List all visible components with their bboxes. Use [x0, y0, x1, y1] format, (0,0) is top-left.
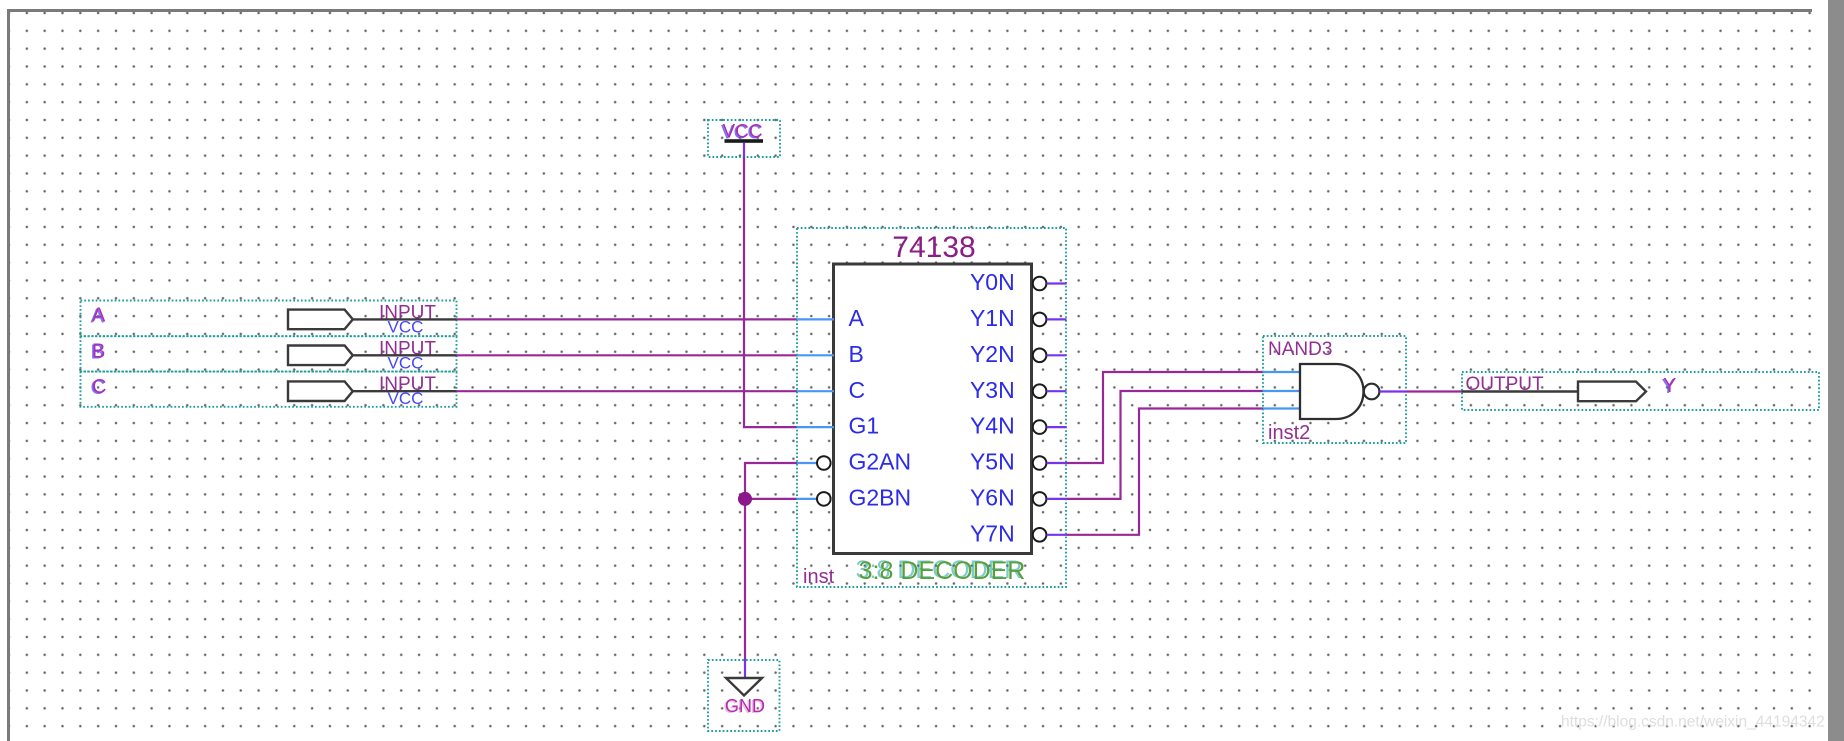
decoder component 74138 (inst) [797, 228, 1066, 588]
svg-text:A: A [92, 304, 106, 326]
svg-text:74138: 74138 [892, 231, 975, 264]
ground symbol GND [708, 659, 780, 731]
wire G2AN branch [745, 463, 797, 660]
svg-text:inst: inst [803, 566, 835, 588]
decoder pin Y3N (inverted output, bubble) [970, 377, 1067, 403]
wire net A to decoder [457, 318, 798, 320]
decoder pin G1 (input stub) [797, 413, 879, 439]
decoder pin C (input stub) [797, 377, 865, 403]
wire net Y5N to NAND3 input 1 [1067, 372, 1264, 463]
wire net NAND3 output to OUTPUT pin [1406, 390, 1462, 392]
decoder pin G2BN (inverted input, bubble) [797, 485, 911, 511]
svg-text:Y7N: Y7N [970, 520, 1015, 546]
wire net C to decoder [457, 390, 798, 392]
svg-text:G2AN: G2AN [849, 449, 912, 475]
svg-text:Y3N: Y3N [970, 377, 1015, 403]
output pin Y [1462, 372, 1819, 410]
input pin B [81, 336, 457, 372]
svg-text:G2BN: G2BN [849, 485, 912, 511]
wire net Y6N to NAND3 input 2 [1067, 391, 1264, 499]
input pin C [81, 372, 457, 409]
svg-text:C: C [92, 376, 106, 398]
decoder pin B (input stub) [797, 341, 864, 367]
svg-text:Y1N: Y1N [970, 305, 1015, 331]
decoder pin Y2N (inverted output, bubble) [970, 341, 1067, 367]
decoder pin G2AN (inverted input, bubble) [797, 449, 911, 475]
decoder pin Y5N (inverted output, bubble) [970, 449, 1067, 475]
decoder pin A (input stub) [797, 305, 865, 331]
decoder pin Y7N (inverted output, bubble) [970, 520, 1067, 546]
svg-text:inst2: inst2 [1268, 422, 1310, 444]
decoder pin Y4N (inverted output, bubble) [970, 413, 1067, 439]
decoder pin Y6N (inverted output, bubble) [970, 485, 1067, 511]
svg-text:G1: G1 [849, 413, 880, 439]
svg-text:https://blog.csdn.net/weixin_4: https://blog.csdn.net/weixin_44194342 [1561, 714, 1825, 731]
svg-text:Y: Y [1663, 375, 1676, 397]
wire net Y7N to NAND3 input 3 [1067, 409, 1264, 535]
decoder pin Y1N (inverted output, bubble) [970, 305, 1067, 331]
svg-text:B: B [92, 340, 105, 362]
svg-text:Y0N: Y0N [970, 269, 1015, 295]
wire G2BN branch [745, 498, 797, 500]
decoder pin Y0N (inverted output, bubble) [970, 269, 1067, 295]
power symbol VCC [708, 120, 780, 158]
wire VCC net vertical + into G1 [744, 157, 797, 427]
input pin A [81, 301, 457, 337]
junction dot G2 net [738, 492, 752, 506]
svg-text:Y5N: Y5N [970, 449, 1015, 475]
svg-text:A: A [849, 305, 865, 331]
svg-text:B: B [849, 341, 864, 367]
svg-text:3:8 DECODER: 3:8 DECODER [859, 557, 1026, 585]
svg-text:C: C [849, 377, 866, 403]
svg-text:Y4N: Y4N [970, 413, 1015, 439]
gate NAND3 (inst2) [1263, 336, 1406, 444]
svg-text:Y2N: Y2N [970, 341, 1015, 367]
svg-text:GND: GND [725, 696, 765, 716]
wire net B to decoder [457, 354, 798, 356]
svg-text:Y6N: Y6N [970, 485, 1015, 511]
svg-text:NAND3: NAND3 [1268, 339, 1332, 360]
